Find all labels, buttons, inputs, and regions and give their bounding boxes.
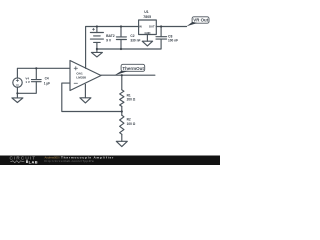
wire: battery top stub xyxy=(96,27,98,33)
wire: ground rail to C8 bottom xyxy=(97,39,161,49)
ground (V4) xyxy=(12,98,23,103)
node: OUT/C8 xyxy=(160,25,162,27)
wire: C4 top stub xyxy=(35,68,37,79)
wire: op-amp output xyxy=(101,74,155,76)
op-amp OA1 LM358 xyxy=(70,61,101,91)
svg-text:ThermOut: ThermOut xyxy=(122,66,144,71)
footer bar xyxy=(0,156,220,166)
wire: V4 top to op-amp + input, with C4 branch xyxy=(17,68,70,78)
resistor R2 xyxy=(120,112,124,142)
svg-text:200 Ω: 200 Ω xyxy=(127,98,136,102)
wire: V+ rail from op-amp V+ up and right to 7805 IN xyxy=(86,27,139,69)
regulator U1 7805 box xyxy=(139,20,157,35)
node: battery - / ground rail xyxy=(96,48,98,50)
wire: C2 top stub xyxy=(120,27,122,37)
svg-text:1 V: 1 V xyxy=(25,80,30,84)
wire: C8 top stub xyxy=(160,27,162,37)
node: C4 top xyxy=(35,67,37,69)
ground (op-amp V-) xyxy=(80,98,91,103)
resistor R1 xyxy=(120,75,124,111)
svg-text:GND: GND xyxy=(145,31,151,35)
ground (7805) xyxy=(142,41,152,46)
svg-text:VR Out: VR Out xyxy=(193,18,208,23)
node: output / R1 top xyxy=(121,74,123,76)
wire: V4 bottom node to C4 bottom xyxy=(17,82,36,98)
svg-text:C4: C4 xyxy=(45,77,49,81)
logo resistor zigzag xyxy=(10,161,24,163)
svg-text:100 Ω: 100 Ω xyxy=(127,122,136,126)
ground (battery) xyxy=(91,52,102,57)
svg-text:LM358: LM358 xyxy=(76,76,86,80)
svg-text:330 nF: 330 nF xyxy=(130,38,140,42)
svg-text:Andrew000 / Thermocouple Ampli: Andrew000 / Thermocouple Amplifier xyxy=(45,156,115,160)
node: C2 on V+ rail xyxy=(120,25,122,27)
node: battery + on V+ rail xyxy=(96,25,98,27)
flag VR Out xyxy=(187,17,209,26)
node: V4 bottom xyxy=(16,92,18,94)
voltage source V4 xyxy=(13,78,22,87)
wire: op-amp V- pin to ground xyxy=(84,84,86,98)
ground (R2) xyxy=(116,141,127,146)
battery BAT2 xyxy=(90,28,103,42)
svg-text:LAB: LAB xyxy=(29,159,38,164)
svg-text:IN: IN xyxy=(139,24,142,28)
svg-text:1 µF: 1 µF xyxy=(44,82,50,86)
svg-text:9 V: 9 V xyxy=(106,38,112,42)
flag ThermOut xyxy=(114,64,144,75)
capacitor C2 xyxy=(116,37,126,40)
wire: battery bottom stub xyxy=(96,42,98,52)
wire: feedback from - input down and right to R1/R2 junction xyxy=(62,83,122,111)
node: C2 bottom on ground rail xyxy=(120,48,122,50)
capacitor C4 xyxy=(32,80,42,82)
node: R1/R2 feedback junction xyxy=(121,110,123,112)
junction dots xyxy=(16,25,162,112)
capacitor C8 xyxy=(156,37,167,39)
wire: C2 bottom stub xyxy=(120,40,122,50)
svg-text:7805: 7805 xyxy=(143,15,151,19)
svg-text:U1: U1 xyxy=(144,10,148,14)
svg-text:100 nF: 100 nF xyxy=(168,39,178,43)
component labels xyxy=(25,10,178,126)
wire: 7805 OUT to VR Out flag xyxy=(156,26,186,28)
svg-text:http://circuitlab.com/c/7pp4fw: http://circuitlab.com/c/7pp4fw xyxy=(45,159,95,163)
wire: 7805 GND stub xyxy=(146,35,148,42)
svg-text:OUT: OUT xyxy=(149,24,155,28)
